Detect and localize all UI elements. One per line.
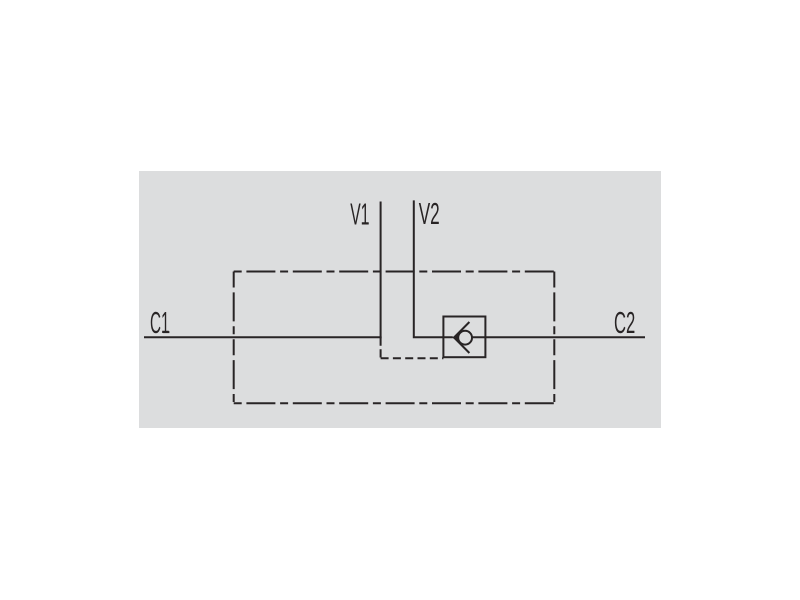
C1 digit-1 foot serif <box>163 331 169 333</box>
svg-text:V1: V1 <box>350 196 369 231</box>
svg-text:C2: C2 <box>614 305 635 340</box>
wire pilot dashed horizontal segment to check valve <box>381 357 444 359</box>
svg-text:V2: V2 <box>419 196 440 231</box>
check valve seat V lines <box>454 322 469 353</box>
wire C1 horizontal line <box>144 336 382 338</box>
V1 digit-1 foot serif <box>362 223 368 225</box>
check valve V1-side box outline <box>443 317 485 358</box>
check valve ball circle <box>458 331 472 345</box>
dash-dot valve body boundary box top edge <box>234 271 555 273</box>
dash-dot valve body boundary box left edge <box>233 272 235 404</box>
wire C2 horizontal line <box>472 336 646 338</box>
gray schematic panel background <box>139 171 661 428</box>
dash-dot valve body boundary box right edge <box>553 272 555 404</box>
dash-dot valve body boundary box bottom edge <box>234 402 555 404</box>
wire V1 vertical line <box>380 202 382 339</box>
check valve seat apex wedge <box>452 333 458 342</box>
wire V2 vertical line with elbow to check valve <box>414 200 453 337</box>
wire pilot dashed vertical segment from V1 <box>380 338 382 359</box>
svg-text:C1: C1 <box>150 305 170 340</box>
